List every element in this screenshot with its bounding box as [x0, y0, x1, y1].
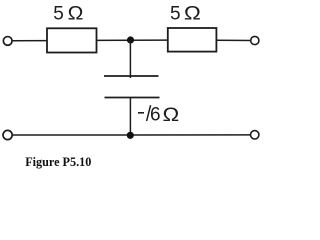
wire top-left	[12, 40, 47, 42]
resistor R2	[168, 28, 217, 52]
wire capacitor bottom lead	[129, 98, 131, 136]
svg-text:Ω: Ω	[163, 105, 180, 126]
svg-text:Ω: Ω	[184, 3, 201, 24]
wire top-right	[216, 39, 250, 41]
junction node A	[127, 36, 134, 43]
label C imaginary j (italic stroke)	[147, 105, 151, 121]
capacitor C bottom plate	[105, 97, 160, 99]
svg-text:Figure P5.10: Figure P5.10	[25, 155, 91, 169]
svg-text:5: 5	[53, 3, 64, 24]
svg-text:6: 6	[150, 105, 161, 126]
terminal T2 (top-right port)	[251, 36, 259, 44]
junction node B	[127, 132, 134, 139]
wire bottom rail	[12, 134, 251, 136]
resistor R1	[47, 28, 97, 52]
svg-text:Ω: Ω	[68, 3, 84, 24]
terminal T1 (top-left port)	[3, 37, 12, 46]
terminal T4 (bottom-right port)	[251, 131, 259, 139]
wire capacitor top lead	[129, 40, 131, 78]
label C minus sign	[138, 112, 144, 114]
capacitor C top plate	[104, 75, 159, 77]
terminal T3 (bottom-left port)	[3, 130, 12, 139]
wire top-middle	[97, 39, 168, 41]
svg-text:5: 5	[170, 3, 181, 24]
